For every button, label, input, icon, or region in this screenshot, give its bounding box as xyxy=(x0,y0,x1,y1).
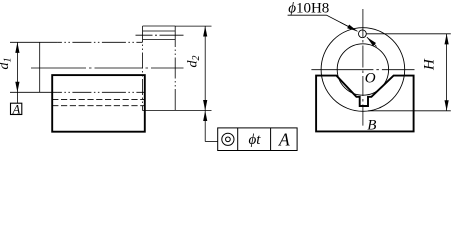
node: V-groove hidden edge 2 (dashed) xyxy=(52,105,145,107)
node: feature control frame box xyxy=(218,128,297,151)
node: phi10H8 dimension arrow lower-right with tail xyxy=(367,37,377,46)
node: dimension d1 line with arrows xyxy=(16,42,18,92)
wire: shaft axis centerline (left view) xyxy=(31,67,184,69)
node: inner circle d1 (journal in V) xyxy=(337,44,388,95)
svg-text:A: A xyxy=(12,102,21,116)
node: disc d2 outline (phantom rectangle) xyxy=(143,26,176,111)
node: V-groove hidden edge 1 (dashed) xyxy=(52,99,145,101)
node: H bottom extension line at circle bottom xyxy=(368,110,451,112)
node: d2 top extension line xyxy=(175,25,211,27)
svg-text:ϕ10H8: ϕ10H8 xyxy=(288,0,329,16)
node: concentricity symbol xyxy=(222,133,234,145)
node: datum A box xyxy=(11,103,22,114)
node: FCF leader arrow up to d2 extension xyxy=(204,111,206,142)
node: V-block body (left view, thick outline) xyxy=(52,75,145,132)
svg-text:O: O xyxy=(365,70,376,86)
node: datum A leader xyxy=(16,92,18,103)
svg-text:H: H xyxy=(421,58,437,71)
svg-text:d1: d1 xyxy=(0,58,14,70)
node: V-block body (right view, thick) xyxy=(316,76,414,132)
svg-text:B: B xyxy=(367,117,376,133)
node: phi10H8 dimension arrow upper-left xyxy=(340,22,358,31)
node: dimension H line with arrows xyxy=(446,34,448,111)
wire: hole centerline (left view) xyxy=(136,34,184,36)
node: outer circle d2 (workpiece disc) xyxy=(321,28,405,112)
wire: FCF leader horizontal xyxy=(205,141,218,143)
wire: horizontal centerline (right view) xyxy=(311,69,414,71)
node: small cylinder d1 top outline (phantom) + d1 top extension line xyxy=(10,41,58,43)
wire: vertical centerline (right view) xyxy=(362,9,364,126)
node: hole phi10H8 silhouette in disc (left view) xyxy=(143,30,176,32)
node: phi10H8 leader line xyxy=(288,15,356,30)
svg-text:ϕt: ϕt xyxy=(249,132,262,148)
node: dimension d2 line with arrows xyxy=(204,26,206,111)
svg-text:d2: d2 xyxy=(186,56,203,68)
node: small hole circle phi10H8 xyxy=(359,30,367,38)
node: H top extension line from hole center xyxy=(366,33,451,35)
svg-text:A: A xyxy=(278,130,290,150)
node: small cylinder d1 bottom outline (phantom) + d1 bottom extension line xyxy=(10,91,58,93)
node: d2 bottom extension line xyxy=(143,110,212,112)
node: small cylinder left end face xyxy=(39,42,41,92)
